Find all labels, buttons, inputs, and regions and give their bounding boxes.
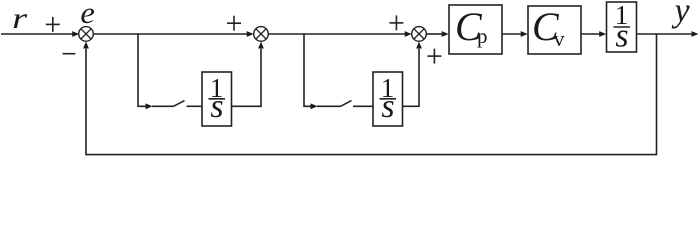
label Cp <box>455 4 488 49</box>
label 1/s in B3 <box>615 0 629 55</box>
wire Cp to Cv <box>502 31 528 37</box>
label plus S2 input <box>227 16 241 31</box>
svg-text:r: r <box>12 2 27 35</box>
wire S3 to Cp <box>426 31 448 37</box>
wire output y <box>637 31 699 37</box>
block Cv <box>528 6 581 54</box>
wire input r <box>1 31 79 37</box>
svg-text:p: p <box>477 24 488 48</box>
wire S2 to S3 <box>268 31 411 37</box>
fraction bar B3 <box>614 26 631 28</box>
label plus S3 upper input <box>389 15 403 30</box>
fraction bar B2 <box>380 98 397 100</box>
label plus S3 lower input <box>427 49 441 64</box>
wire Cv to integrator B3 <box>581 31 606 37</box>
switch SW2 <box>311 101 374 110</box>
summing junction S1 <box>79 27 94 42</box>
svg-text:s: s <box>210 88 223 125</box>
label r <box>12 2 27 35</box>
svg-text:y: y <box>671 0 690 30</box>
svg-text:s: s <box>381 88 394 125</box>
wire B2 to S3 <box>403 42 422 107</box>
label 1/s in B1 <box>210 73 224 125</box>
switch SW1 <box>146 101 203 110</box>
label y <box>671 0 690 30</box>
integrator block B3 <box>607 2 637 52</box>
label plus r input <box>46 17 60 32</box>
fraction bar B1 <box>209 98 226 100</box>
svg-text:s: s <box>615 18 628 55</box>
wire B1 to S2 <box>232 42 264 107</box>
label 1/s in B2 <box>381 73 395 125</box>
summing junction S3 <box>412 27 427 42</box>
label minus feedback input <box>63 53 76 55</box>
wire branch 2 drop <box>304 34 311 106</box>
wire feedback loop <box>83 34 656 155</box>
integrator block B2 <box>373 72 403 126</box>
wire S1 to S2 <box>93 31 253 37</box>
block Cp <box>449 5 502 54</box>
label Cv <box>532 4 565 51</box>
svg-text:e: e <box>80 0 95 30</box>
label e <box>80 0 95 30</box>
integrator block B1 <box>202 72 232 126</box>
summing junction S2 <box>254 27 269 42</box>
wire branch 1 drop <box>138 34 146 106</box>
svg-text:v: v <box>554 26 565 51</box>
